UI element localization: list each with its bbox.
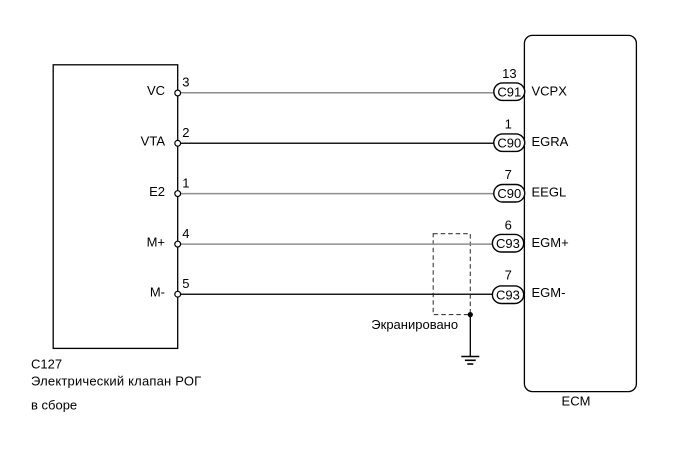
svg-text:E2: E2 — [149, 184, 165, 199]
svg-text:в сборе: в сборе — [31, 398, 77, 413]
svg-text:Электрический клапан РОГ: Электрический клапан РОГ — [31, 374, 201, 389]
svg-text:C93: C93 — [496, 287, 520, 302]
svg-text:1: 1 — [182, 175, 189, 190]
svg-text:VCPX: VCPX — [532, 84, 568, 99]
svg-text:C93: C93 — [496, 236, 520, 251]
svg-text:Экранировано: Экранировано — [371, 317, 458, 332]
svg-text:13: 13 — [502, 66, 516, 81]
svg-text:1: 1 — [505, 117, 512, 132]
svg-text:M-: M- — [150, 285, 165, 300]
svg-text:4: 4 — [182, 226, 189, 241]
svg-text:C91: C91 — [497, 84, 521, 99]
svg-text:7: 7 — [505, 167, 512, 182]
svg-text:C127: C127 — [31, 356, 62, 371]
svg-text:6: 6 — [505, 217, 512, 232]
svg-text:EGRA: EGRA — [532, 134, 569, 149]
svg-text:EGM-: EGM- — [532, 285, 566, 300]
svg-text:2: 2 — [182, 125, 189, 140]
svg-text:EGM+: EGM+ — [532, 235, 569, 250]
svg-text:VC: VC — [147, 83, 165, 98]
svg-text:C90: C90 — [497, 135, 521, 150]
svg-text:5: 5 — [182, 276, 189, 291]
svg-text:ECM: ECM — [562, 394, 591, 409]
svg-text:VTA: VTA — [141, 134, 166, 149]
svg-text:C90: C90 — [497, 186, 521, 201]
svg-text:7: 7 — [505, 268, 512, 283]
svg-text:EEGL: EEGL — [532, 184, 567, 199]
svg-text:M+: M+ — [147, 234, 165, 249]
svg-text:3: 3 — [182, 75, 189, 90]
